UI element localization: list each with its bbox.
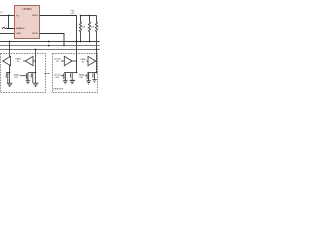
svg-text:ENABLE: ENABLE xyxy=(16,27,25,30)
resistor R2 10k xyxy=(88,16,90,42)
ground xyxy=(26,81,31,84)
node junction deviceN clock on bus1 xyxy=(76,41,78,43)
ground xyxy=(86,81,91,84)
svg-text:GND: GND xyxy=(16,33,21,35)
node junction device1 clock on bus1 xyxy=(9,41,11,43)
svg-text:LTC4311: LTC4311 xyxy=(22,8,32,11)
node junction stub on bus1 xyxy=(48,41,50,43)
tilde squiggle xyxy=(2,28,7,29)
svg-text:10k: 10k xyxy=(91,27,94,29)
wire bus line 3 xyxy=(0,49,100,51)
device 1 dashed box xyxy=(1,54,46,93)
wire A4 apex to pin xyxy=(95,60,98,62)
node junction VCC/ENABLE xyxy=(8,15,10,17)
wire A3 apex to pin xyxy=(72,60,77,62)
node junction device1 data on bus3 xyxy=(35,49,37,51)
wire device1 SCL pin drop xyxy=(9,42,11,73)
capacitor C5 deviceN xyxy=(71,73,73,80)
wire to A3 base xyxy=(61,60,64,62)
svg-text:BUS2: BUS2 xyxy=(32,33,38,35)
ground xyxy=(33,83,39,86)
wire gate drive deviceN data xyxy=(85,75,87,77)
wire A2 base to pin xyxy=(33,60,36,62)
svg-text:VBUS: VBUS xyxy=(70,10,74,12)
wire VIN rail to VCC pin xyxy=(0,15,15,17)
node junction R2 on bus1 xyxy=(89,41,91,43)
background xyxy=(0,0,100,100)
resistor R3 xyxy=(95,16,97,73)
wire device1 SDA pin drop xyxy=(35,50,37,73)
transistor Q3 deviceN xyxy=(96,72,98,74)
wire BUS1 to lower bus xyxy=(40,16,77,73)
op-amp buffer A2 device1 data receiver xyxy=(25,56,33,65)
capacitor C7 deviceN data xyxy=(93,73,95,80)
op-amp buffer A3 deviceN clock receiver xyxy=(64,56,72,65)
ground xyxy=(70,80,75,83)
wire BUS2 to upper bus xyxy=(40,34,65,46)
svg-text:DEVICE N: DEVICE N xyxy=(53,89,63,91)
wire GND pin to left edge xyxy=(0,33,15,35)
node junction R1 on bus1 xyxy=(80,41,82,43)
svg-text:3.3V: 3.3V xyxy=(70,13,75,15)
op-amp U1 LTC4311 xyxy=(15,6,40,39)
wire gate drive device1 xyxy=(20,75,27,77)
ground xyxy=(7,83,13,86)
transistor Q1 device1 xyxy=(35,72,37,74)
wire bus line 2 xyxy=(0,45,100,47)
node ellipsis more devices xyxy=(44,73,45,74)
wire to A4 base xyxy=(86,60,88,62)
ground xyxy=(92,80,96,83)
node junction stub on bus2 xyxy=(48,45,50,47)
capacitor C3 cluster B xyxy=(31,73,33,83)
wire 3.3V rail xyxy=(81,15,97,17)
resistor R1 10k xyxy=(79,16,81,42)
ground xyxy=(63,81,68,84)
device N dashed box xyxy=(53,54,98,93)
svg-text:BUS1: BUS1 xyxy=(32,15,38,17)
svg-text:1: 1 xyxy=(98,27,99,29)
svg-text:10k: 10k xyxy=(82,27,85,29)
op-amp buffer A1 device1 clock receiver xyxy=(3,56,11,65)
wire pin to ground xyxy=(35,73,37,84)
transistor Q2 deviceN xyxy=(76,72,78,74)
op-amp buffer A4 deviceN data receiver xyxy=(88,56,96,65)
capacitor C1 cluster A xyxy=(9,72,11,74)
wire gate drive deviceN clock xyxy=(61,75,64,77)
wire A2 apex to label xyxy=(23,60,25,62)
wire junction down to ENABLE xyxy=(7,16,15,29)
wire pin to ground xyxy=(9,73,11,84)
wire bus line 1 xyxy=(0,41,100,43)
